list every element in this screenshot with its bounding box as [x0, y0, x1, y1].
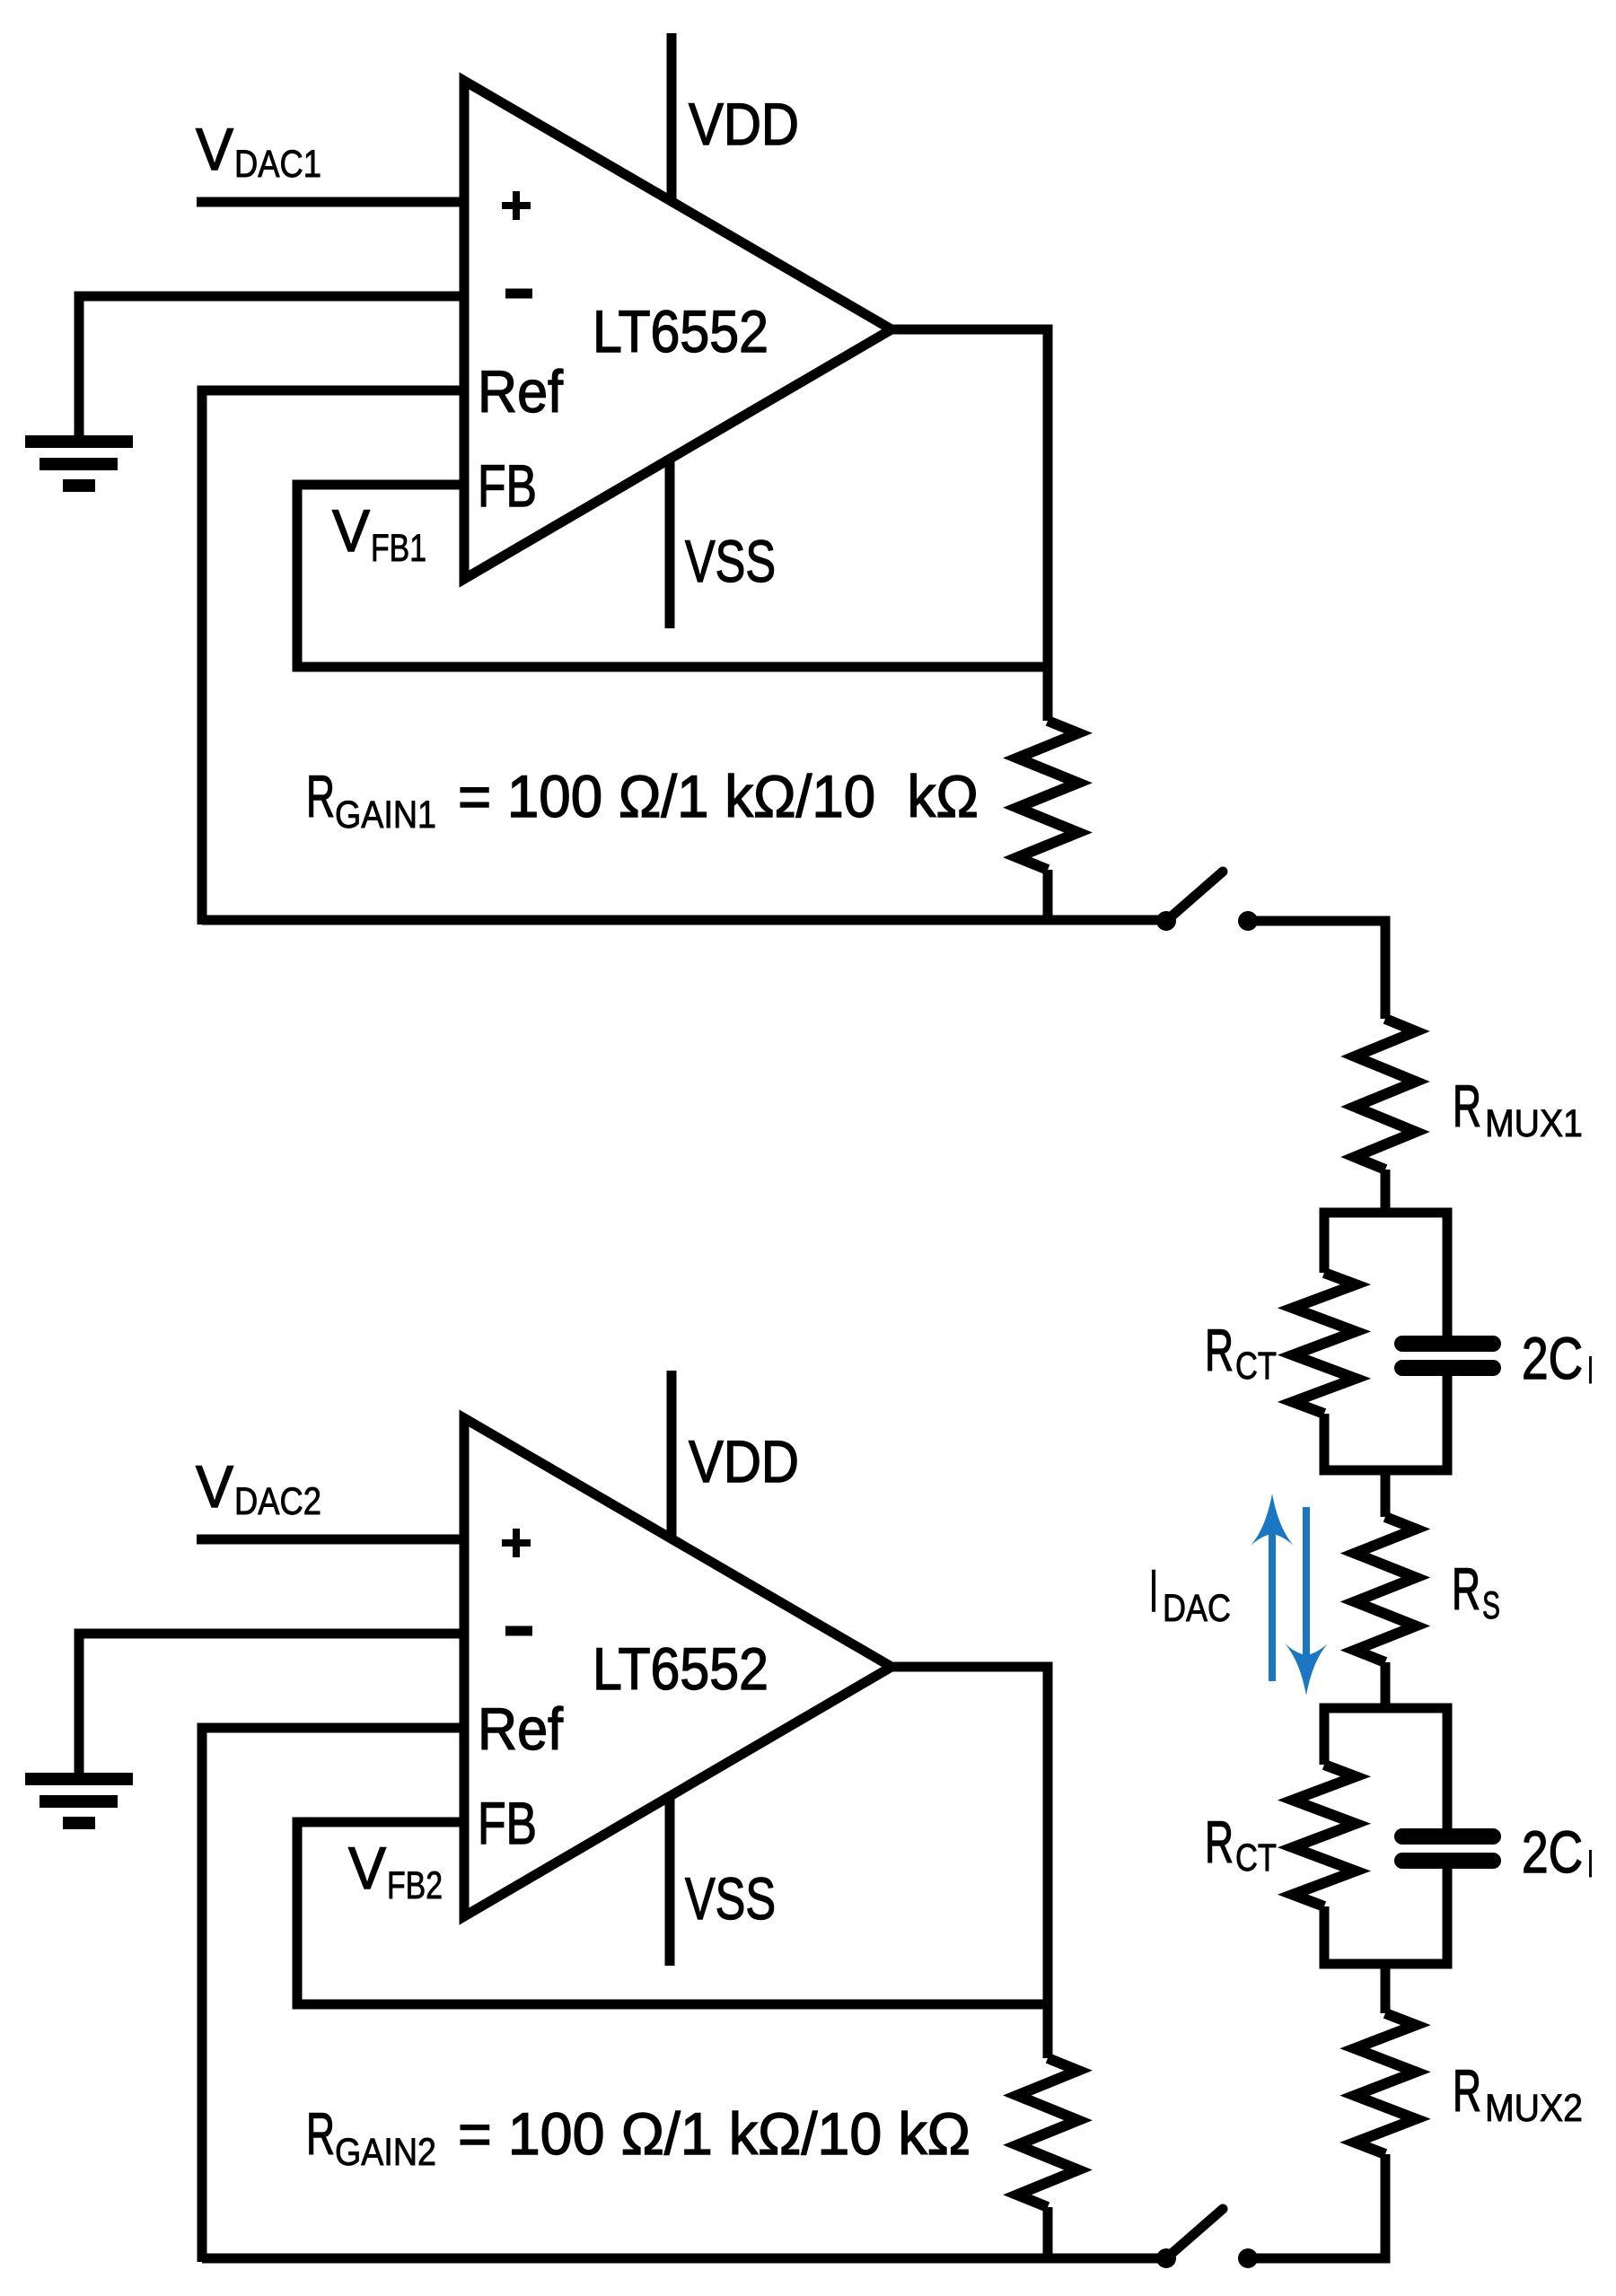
svg-text:VDD: VDD	[689, 91, 799, 157]
svg-text:R: R	[306, 2100, 335, 2167]
resistor R_S	[1355, 1517, 1416, 1662]
svg-text:CT: CT	[1235, 1345, 1277, 1388]
svg-text:R: R	[1452, 1555, 1480, 1622]
op-amp U1 plus input marker	[502, 191, 531, 220]
svg-text:FB: FB	[478, 1790, 537, 1856]
svg-text:Ref: Ref	[478, 358, 564, 425]
resistor R_GAIN1	[1017, 721, 1078, 870]
svg-text:GAIN2: GAIN2	[335, 2131, 436, 2174]
svg-text:2C: 2C	[1522, 1325, 1583, 1391]
op-amp U2 LT6552 triangle	[464, 1418, 891, 1916]
current I_DAC down arrow	[1285, 1507, 1328, 1696]
op-amp U2 plus input marker	[502, 1529, 531, 1557]
svg-text:LT6552: LT6552	[593, 1635, 768, 1702]
svg-text:R: R	[1453, 2057, 1481, 2124]
svg-text:Ref: Ref	[478, 1696, 564, 1762]
svg-text:DAC1: DAC1	[234, 143, 321, 186]
resistor R_GAIN2	[1017, 2058, 1078, 2207]
ground GND2	[25, 1773, 133, 1829]
RC block 1 frame top	[1324, 1213, 1447, 1336]
svg-text:R: R	[306, 763, 335, 829]
wire FB pin loop V_FB1	[297, 485, 1052, 667]
svg-text:GAIN1: GAIN1	[335, 793, 436, 837]
svg-text:CT: CT	[1235, 1836, 1277, 1880]
wire R_MUX1 to RC block 1	[1381, 1170, 1391, 1217]
power VSS stub U1	[665, 459, 675, 628]
svg-text:V: V	[196, 1453, 233, 1520]
power VDD stub U2	[667, 1371, 677, 1539]
capacitor 2C_I (bottom block) plates	[1402, 1836, 1493, 1861]
op-amp U1 LT6552 triangle	[464, 81, 891, 579]
RC block 1 frame bottom	[1324, 1376, 1447, 1470]
svg-text:MUX2: MUX2	[1485, 2087, 1583, 2130]
svg-text:= 100 Ω/1 kΩ/10 kΩ: = 100 Ω/1 kΩ/10 kΩ	[458, 2100, 970, 2167]
op-amp U2 minus input marker	[505, 1626, 532, 1636]
wire bottom net 1	[202, 916, 1161, 925]
svg-text:VDD: VDD	[689, 1428, 799, 1494]
RC block 2 frame top	[1324, 1708, 1447, 1829]
svg-text:V: V	[348, 1835, 386, 1901]
svg-text:2C: 2C	[1522, 1818, 1583, 1885]
ground GND1	[25, 435, 133, 492]
wire switch S1 to R_MUX1	[1248, 921, 1385, 1019]
svg-text:V: V	[196, 116, 233, 182]
wire Ref pin down to switch net	[202, 390, 464, 925]
resistor R_CT (bottom block)	[1293, 1765, 1356, 1906]
current I_DAC up arrow	[1251, 1494, 1294, 1681]
svg-text:VSS: VSS	[685, 528, 776, 594]
capacitor 2C_I (top block) plates	[1402, 1344, 1493, 1368]
svg-text:VSS: VSS	[685, 1865, 776, 1932]
wire - input to ground	[79, 296, 464, 442]
svg-text:DAC2: DAC2	[234, 1480, 321, 1523]
wire RC block 1 to R_S	[1381, 1470, 1391, 1517]
svg-text:I: I	[1587, 1349, 1594, 1392]
wire R_GAIN2 bottom	[1043, 2207, 1053, 2262]
svg-text:= 100 Ω/1 kΩ/10 kΩ: = 100 Ω/1 kΩ/10 kΩ	[458, 763, 979, 829]
wire - input to ground (U2)	[79, 1634, 464, 1779]
svg-text:V: V	[332, 497, 370, 564]
wire V_DAC2 to + input	[197, 1535, 464, 1545]
wire FB pin loop V_FB2	[297, 1822, 1052, 2004]
power VSS stub U2	[665, 1796, 675, 1966]
RC block 2 frame bottom	[1324, 1869, 1447, 1964]
svg-text:DAC: DAC	[1163, 1587, 1231, 1630]
wire bottom net 2	[202, 2254, 1161, 2264]
switch S2	[1156, 2209, 1258, 2268]
svg-text:R: R	[1205, 1317, 1234, 1383]
svg-text:R: R	[1453, 1073, 1481, 1139]
svg-text:FB1: FB1	[371, 527, 426, 570]
svg-text:I: I	[1149, 1557, 1158, 1624]
wire U2 output down to R_GAIN2	[891, 1667, 1048, 2058]
resistor R_MUX1	[1355, 1019, 1416, 1170]
op-amp U1 minus input marker	[505, 289, 532, 299]
wire R_GAIN1 bottom	[1043, 870, 1053, 925]
wire U1 output down to R_GAIN1	[891, 329, 1048, 721]
wire R_S to RC block 2	[1381, 1662, 1391, 1713]
svg-text:R: R	[1205, 1809, 1234, 1875]
wire R_MUX2 to switch S2	[1248, 2154, 1385, 2258]
svg-text:FB2: FB2	[387, 1864, 443, 1907]
switch S1	[1156, 872, 1258, 931]
svg-text:LT6552: LT6552	[593, 298, 768, 364]
wire Ref pin down to switch net (U2)	[202, 1728, 464, 2262]
resistor R_MUX2	[1355, 2013, 1416, 2154]
svg-text:S: S	[1482, 1584, 1500, 1627]
wire RC block 2 to R_MUX2	[1381, 1964, 1391, 2013]
svg-text:MUX1: MUX1	[1485, 1102, 1583, 1145]
power VDD stub U1	[667, 33, 677, 202]
wire V_DAC1 to + input	[197, 197, 464, 207]
svg-text:FB: FB	[478, 452, 537, 519]
svg-text:I: I	[1587, 1843, 1594, 1886]
resistor R_CT (top block)	[1293, 1273, 1356, 1414]
